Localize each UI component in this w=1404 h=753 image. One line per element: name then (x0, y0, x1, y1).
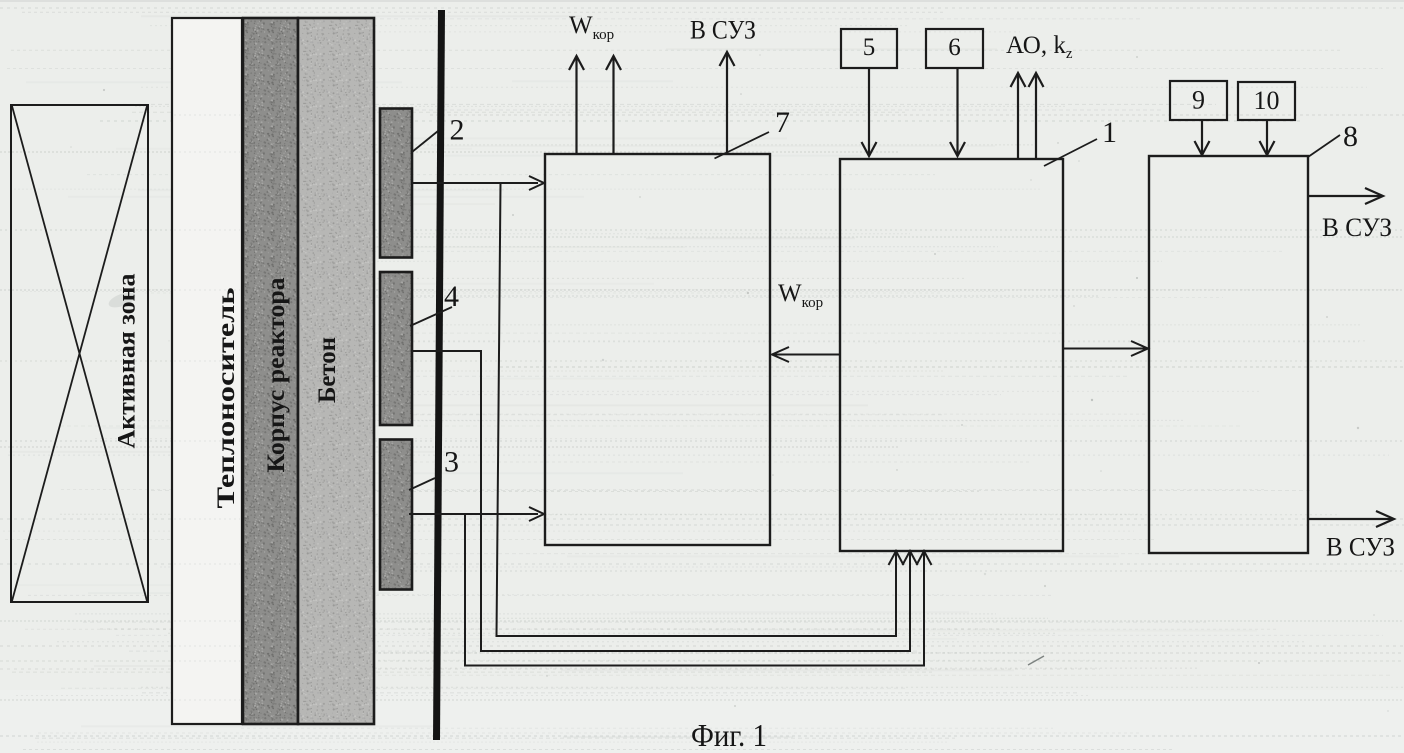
svg-text:6: 6 (948, 34, 961, 61)
svg-text:Активная зона: Активная зона (114, 273, 141, 449)
svg-text:4: 4 (444, 280, 459, 313)
svg-text:В СУЗ: В СУЗ (690, 16, 756, 45)
svg-text:В СУЗ: В СУЗ (1322, 213, 1392, 242)
svg-text:8: 8 (1343, 120, 1358, 153)
svg-text:Бетон: Бетон (314, 337, 341, 403)
svg-text:В СУЗ: В СУЗ (1326, 533, 1395, 562)
svg-text:Фиг. 1: Фиг. 1 (691, 717, 767, 753)
svg-text:3: 3 (444, 446, 459, 479)
svg-text:Теплоноситель: Теплоноситель (213, 288, 240, 509)
svg-text:7: 7 (775, 106, 790, 139)
svg-text:АО, kz: АО, kz (1006, 32, 1073, 62)
svg-text:5: 5 (863, 34, 876, 61)
svg-text:1: 1 (1102, 116, 1117, 149)
svg-text:10: 10 (1254, 86, 1280, 115)
svg-text:Корпус реактора: Корпус реактора (263, 277, 290, 473)
svg-text:9: 9 (1192, 86, 1205, 115)
svg-text:2: 2 (450, 114, 465, 147)
